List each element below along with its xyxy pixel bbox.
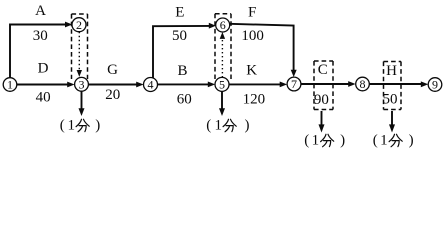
svg-text:9: 9 (432, 78, 438, 92)
node 3 (75, 77, 89, 91)
score note (1 fen) below node 3 (60, 118, 100, 134)
svg-text:A: A (35, 3, 46, 19)
svg-text:3: 3 (79, 77, 85, 91)
node 2 (72, 18, 86, 32)
dashed box around node 2 and dummy (72, 14, 88, 79)
wire D arrow from node 1 to node 3 (17, 82, 75, 88)
wire G arrow from node 3 to node 4 (88, 82, 143, 88)
wire A path from node 1 up and right to node 2 (10, 22, 72, 85)
svg-text:1: 1 (214, 118, 222, 134)
svg-text:): ) (340, 133, 345, 149)
down arrow below node 3 (79, 91, 85, 116)
svg-text:100: 100 (241, 28, 264, 44)
wire F path from node 6 right and down to node 7 (230, 24, 297, 77)
svg-text:(: ( (304, 133, 309, 149)
svg-text:1: 1 (7, 78, 13, 92)
svg-text:4: 4 (148, 78, 154, 92)
svg-text:1: 1 (67, 118, 75, 134)
svg-text:E: E (175, 5, 184, 21)
score note (1 fen) below activity C (304, 133, 345, 149)
svg-text:F: F (248, 4, 256, 20)
svg-text:40: 40 (36, 90, 51, 106)
node 5 (215, 77, 229, 91)
svg-text:G: G (107, 62, 118, 78)
svg-text:20: 20 (105, 87, 120, 103)
svg-text:8: 8 (360, 77, 366, 91)
svg-text:6: 6 (220, 18, 226, 32)
svg-text:90: 90 (314, 92, 329, 108)
node 8 (356, 77, 370, 91)
dashed box around activity H label (384, 62, 402, 110)
svg-text:B: B (177, 63, 187, 79)
svg-text:2: 2 (76, 18, 82, 32)
wire K arrow from node 5 to node 7 (229, 82, 287, 88)
svg-text:C: C (318, 62, 328, 78)
down arrow below node 5 (219, 91, 225, 116)
svg-text:): ) (245, 118, 250, 134)
svg-text:(: ( (206, 118, 211, 134)
score note (1 fen) below node 5 (206, 118, 249, 134)
node 6 (216, 18, 230, 32)
node 7 (287, 77, 301, 91)
svg-text:50: 50 (172, 28, 187, 44)
svg-text:7: 7 (291, 77, 297, 91)
down arrow below activity C box (319, 111, 325, 133)
wire arrow from node 8 to node 9 through activity H box (369, 81, 428, 87)
svg-text:D: D (38, 60, 49, 76)
wire B arrow from node 4 to node 5 (157, 82, 215, 88)
node 9 (428, 78, 442, 92)
svg-text:): ) (409, 133, 414, 149)
svg-text:): ) (95, 118, 100, 134)
svg-text:30: 30 (33, 28, 48, 44)
svg-text:H: H (386, 63, 397, 79)
down arrow below activity H box (389, 111, 395, 133)
svg-text:(: ( (373, 133, 378, 149)
dummy dotted arrow from node 2 down to node 3 (77, 32, 82, 77)
score note (1 fen) below activity H (373, 133, 414, 149)
dashed box around node 6 and dummy (215, 14, 231, 79)
node 1 (3, 78, 17, 92)
wire arrow from node 7 to node 8 through activity C box (301, 81, 356, 87)
svg-text:60: 60 (177, 91, 192, 107)
svg-text:K: K (246, 63, 257, 79)
dummy dotted arrow from node 5 up to node 6 (220, 32, 225, 77)
wire E path from node 4 up and right to node 6 (153, 23, 216, 84)
svg-text:1: 1 (312, 133, 320, 149)
node 4 (144, 78, 158, 92)
svg-text:50: 50 (383, 92, 398, 108)
svg-text:120: 120 (243, 91, 266, 107)
svg-text:(: ( (60, 118, 65, 134)
svg-text:5: 5 (219, 78, 225, 92)
dashed box around activity C label (314, 61, 333, 110)
svg-text:1: 1 (380, 133, 388, 149)
